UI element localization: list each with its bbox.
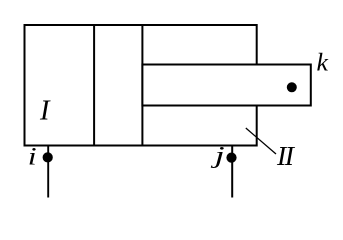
svg-text:II: II	[276, 141, 296, 172]
wire from node j down	[231, 146, 233, 198]
cylinder housing I (outer rectangle)	[25, 25, 257, 146]
piston rod II (rectangle, drawn over housing right edge)	[142, 65, 310, 106]
piston divider line 2	[141, 24, 143, 147]
leader line to label II	[246, 128, 276, 154]
svg-text:k: k	[317, 47, 329, 76]
wire from node i down	[47, 146, 49, 198]
svg-text:I: I	[39, 95, 51, 126]
svg-text:i: i	[28, 142, 37, 170]
piston divider line 1	[93, 24, 95, 147]
node i dot	[43, 152, 53, 162]
node j dot	[226, 153, 236, 163]
node k dot	[287, 82, 297, 92]
